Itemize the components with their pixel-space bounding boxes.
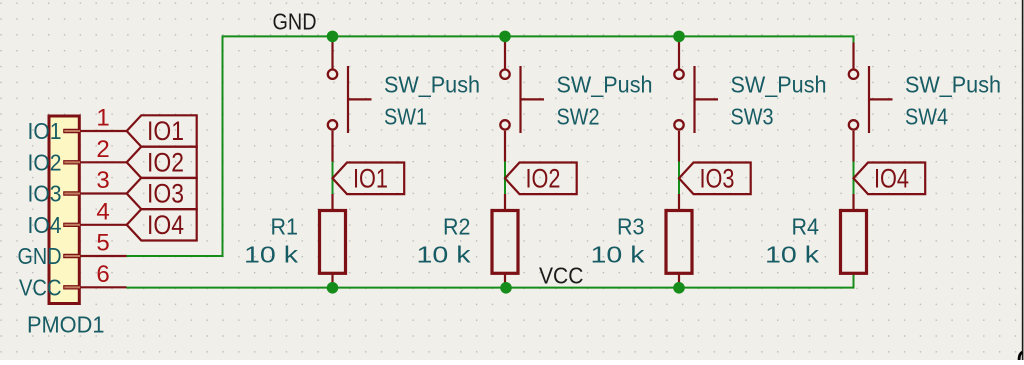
wire column 3 switch-to-resistor: [678, 161, 680, 196]
switch SW1 bottom pin: [331, 131, 333, 162]
wire column 1 switch-to-resistor: [332, 161, 334, 196]
svg-text:SW4: SW4: [905, 103, 948, 129]
switch SW2 top contact circle: [500, 70, 509, 79]
resistor R4 top pin: [852, 194, 854, 210]
wire VCC net: pin6 along bottom: [127, 275, 854, 288]
svg-text:SW_Push: SW_Push: [557, 72, 653, 98]
svg-text:SW_Push: SW_Push: [384, 72, 480, 98]
pin 2 line: [81, 161, 127, 163]
switch SW2 actuator stem: [521, 98, 545, 100]
switch SW1 bottom contact circle: [328, 120, 337, 129]
switch SW2 bottom contact circle: [500, 120, 509, 129]
resistor R3 top pin: [678, 194, 680, 210]
switch SW3 top contact circle: [674, 70, 683, 79]
svg-text:10 k: 10 k: [417, 242, 471, 268]
svg-text:SW2: SW2: [557, 103, 600, 129]
hierarchical label IO2 (resistor side): [505, 163, 577, 195]
switch SW2 top pin: [504, 39, 506, 69]
svg-text:2: 2: [96, 136, 109, 163]
svg-text:IO3: IO3: [147, 179, 184, 209]
sheet border right edge: [1022, 0, 1024, 360]
switch SW3 bottom pin: [678, 131, 680, 162]
pin 3 line: [81, 192, 127, 194]
svg-text:R1: R1: [271, 214, 299, 240]
junction VCC col 1: [327, 282, 339, 294]
switch SW4 top pin: [852, 43, 854, 69]
switch SW1 top contact circle: [328, 70, 337, 79]
resistor R1 body: [320, 211, 346, 274]
wire column 4 switch-to-resistor: [853, 161, 855, 196]
pin 2 stub inside body: [63, 160, 80, 164]
svg-text:IO2: IO2: [526, 164, 561, 194]
svg-text:10 k: 10 k: [765, 242, 819, 268]
switch SW4 actuator bar: [868, 66, 870, 133]
pin 1 line: [81, 130, 127, 132]
pin 6 stub inside body: [63, 285, 80, 289]
hierarchical label IO3 (connector side): [127, 178, 197, 209]
switch SW1 actuator bar: [347, 66, 349, 133]
resistor R4 body: [841, 211, 867, 274]
hierarchical label IO4 (resistor side): [854, 163, 926, 195]
junction GND col 3: [673, 31, 685, 43]
wire column 2 switch-to-resistor: [504, 161, 506, 196]
svg-text:SW_Push: SW_Push: [731, 72, 827, 98]
svg-text:IO4: IO4: [147, 210, 184, 240]
junction VCC col 2: [500, 282, 512, 294]
svg-text:GND: GND: [273, 9, 317, 35]
switch SW1 top pin: [331, 39, 333, 69]
svg-text:GND: GND: [18, 243, 62, 269]
pin 4 stub inside body: [63, 223, 80, 227]
svg-text:SW3: SW3: [731, 103, 774, 129]
switch SW3 top pin: [678, 39, 680, 69]
resistor R3 body: [666, 211, 692, 274]
pin 3 stub inside body: [63, 191, 80, 195]
junction VCC col 3: [673, 282, 685, 294]
svg-text:5: 5: [96, 230, 109, 257]
svg-text:VCC: VCC: [539, 263, 584, 289]
svg-text:1: 1: [96, 105, 109, 132]
svg-text:10 k: 10 k: [244, 242, 298, 268]
hierarchical label IO2 (connector side): [127, 147, 197, 178]
hierarchical label IO3 (resistor side): [679, 163, 751, 195]
svg-text:R2: R2: [443, 214, 471, 240]
hierarchical label IO1 (resistor side): [333, 163, 405, 195]
pin 1 stub inside body: [63, 129, 80, 133]
svg-text:SW_Push: SW_Push: [905, 72, 1001, 98]
svg-text:IO1: IO1: [147, 116, 184, 146]
switch SW4 top contact circle: [849, 70, 858, 79]
resistor R1 bottom pin: [331, 274, 333, 288]
svg-text:IO4: IO4: [874, 164, 909, 194]
svg-text:SW1: SW1: [384, 103, 427, 129]
wire GND net: pin5 to top bus: [127, 36, 854, 256]
hierarchical label IO1 (connector side): [127, 115, 197, 146]
svg-text:10 k: 10 k: [591, 242, 645, 268]
svg-text:3: 3: [96, 167, 109, 194]
svg-text:IO1: IO1: [353, 164, 388, 194]
svg-text:6: 6: [96, 261, 109, 288]
switch SW4 actuator stem: [869, 98, 893, 100]
junction GND col 1: [327, 31, 339, 43]
svg-text:IO1: IO1: [28, 118, 62, 144]
svg-text:IO4: IO4: [28, 212, 62, 238]
switch SW4 bottom contact circle: [849, 120, 858, 129]
svg-text:R4: R4: [792, 214, 820, 240]
resistor R1 top pin: [331, 194, 333, 210]
svg-text:PMOD1: PMOD1: [27, 312, 105, 338]
resistor R3 bottom pin: [678, 274, 680, 288]
switch SW2 actuator bar: [519, 66, 521, 133]
switch SW1 actuator stem: [348, 98, 372, 100]
pin 6 line: [81, 286, 127, 288]
connector J1 body: [49, 116, 79, 304]
svg-text:IO3: IO3: [700, 164, 735, 194]
switch SW3 actuator stem: [695, 98, 719, 100]
svg-text:IO2: IO2: [28, 149, 62, 175]
pin 5 line: [81, 255, 127, 257]
hierarchical label IO4 (connector side): [127, 209, 197, 240]
sheet corner mark: [1019, 352, 1022, 362]
switch SW4 bottom pin: [852, 131, 854, 162]
svg-text:4: 4: [96, 198, 109, 225]
svg-text:R3: R3: [617, 214, 645, 240]
junction GND col 2: [499, 31, 511, 43]
switch SW3 actuator bar: [693, 66, 695, 133]
switch SW2 bottom pin: [504, 131, 506, 162]
pin 4 line: [81, 224, 127, 226]
resistor R2 body: [492, 211, 518, 274]
svg-text:IO3: IO3: [28, 181, 62, 207]
resistor R2 bottom pin: [504, 274, 506, 288]
svg-text:IO2: IO2: [147, 147, 184, 177]
svg-text:VCC: VCC: [19, 274, 62, 300]
switch SW3 bottom contact circle: [674, 120, 683, 129]
resistor R2 top pin: [504, 194, 506, 210]
pin 5 stub inside body: [63, 254, 80, 258]
